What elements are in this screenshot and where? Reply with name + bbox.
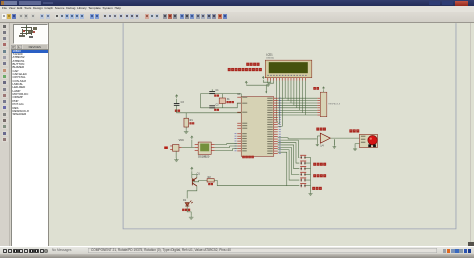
wire xtal left vertical: [199, 93, 201, 107]
opamp input stub: [317, 134, 320, 136]
capacitor C2: [209, 105, 215, 107]
wire R2 to node: [214, 180, 217, 185]
wire LCD E: [277, 80, 282, 126]
LCD display LCD1: [265, 60, 312, 78]
label confirm (red): [312, 186, 315, 189]
svg-text:LM016L: LM016L: [266, 57, 275, 59]
ground LCD: [265, 83, 269, 86]
capacitor C3: [175, 98, 177, 103]
op-amp U2: [320, 133, 330, 143]
svg-text:1/4: 1/4: [320, 144, 324, 147]
transistor Q1: [192, 177, 197, 185]
canvas: [48, 23, 474, 247]
wire xtal bottom rail: [200, 103, 241, 108]
MCU U1 AT89C52 body: [241, 96, 274, 156]
sheet border: [123, 23, 456, 229]
wire LED to ground: [187, 206, 191, 215]
svg-text:C2: C2: [215, 103, 219, 106]
button SW5: [300, 177, 306, 181]
component list: [11, 49, 49, 247]
wire button row 2: [277, 142, 299, 162]
svg-text:VCC: VCC: [178, 138, 183, 141]
wire adjust to DS18B20: [181, 146, 194, 148]
ground opamp: [333, 139, 335, 145]
label RP1: [313, 86, 316, 89]
bottom edge strip: [0, 254, 474, 258]
svg-text:Q1: Q1: [196, 172, 200, 175]
resistor R1: [185, 112, 187, 117]
red indicator: [164, 146, 168, 149]
wire button row 1: [277, 140, 299, 157]
wire xtal top rail: [200, 92, 241, 94]
wire LCD vss to ground: [266, 80, 268, 83]
wire LCD RW: [277, 80, 279, 123]
wires DS18B20 to MCU P1: [214, 142, 237, 145]
button SW3: [300, 166, 306, 170]
toolbar: [0, 12, 474, 23]
label opamp (red): [316, 127, 319, 130]
wire LCD RS: [276, 80, 277, 121]
ground adjust: [174, 157, 179, 161]
svg-text:LCD1: LCD1: [266, 53, 273, 56]
power +5V reset: [175, 94, 177, 97]
resistor R2: [207, 178, 214, 181]
svg-text:R2: R2: [207, 175, 211, 178]
power +5V RP1: [322, 86, 324, 89]
wire LCD vee: [268, 80, 274, 83]
svg-text:X1: X1: [226, 97, 230, 100]
common button wire to ground: [309, 157, 311, 192]
wire RST: [176, 105, 241, 113]
wire opamp out to sounder: [330, 137, 359, 139]
red annotation line 1: [246, 62, 249, 65]
svg-text:C1: C1: [215, 89, 219, 92]
sounder LS1: [359, 134, 377, 147]
base wire to R2: [192, 180, 206, 181]
wire button row 3: [277, 144, 299, 168]
red annotation line 2: [227, 67, 230, 70]
label sounder (red): [349, 129, 352, 132]
capacitor C1: [209, 91, 215, 93]
power +5V EA: [245, 81, 247, 84]
status bar: [0, 246, 474, 255]
MCU right pins: [273, 98, 277, 153]
wire button row 5: [277, 149, 299, 179]
DS18B20 sensor: [198, 142, 211, 154]
button SW6: [300, 183, 306, 187]
power +5V Q1: [190, 167, 192, 170]
ground sounder: [352, 147, 356, 150]
ground LED: [188, 215, 193, 219]
svg-text:R1: R1: [189, 119, 193, 122]
wire EA to VCC: [246, 85, 266, 93]
svg-text:D1: D1: [183, 199, 187, 202]
wire transistor node / button row6: [217, 184, 299, 186]
button SW4: [300, 172, 306, 176]
wires LCD data bus verticals: [285, 80, 305, 114]
button SW1: [300, 155, 306, 159]
button SW2: [300, 160, 306, 164]
svg-text:U1: U1: [237, 92, 241, 96]
power wire DS18B20: [190, 139, 192, 147]
adjust component: [172, 144, 178, 151]
wire RP1 common to +5V: [322, 90, 324, 92]
crystal X1: [221, 93, 223, 97]
wire LCD vdd to +5V: [263, 79, 270, 81]
wire emitter down to LED: [187, 186, 197, 198]
left tool strip: [0, 23, 10, 247]
resistor pack RP1: [320, 92, 327, 117]
ground buttons: [308, 192, 312, 195]
MCU left pins: [237, 97, 241, 151]
label 10uF: [174, 109, 176, 111]
schematic svg: [48, 23, 474, 247]
wire button row 4: [277, 147, 299, 174]
wire adjust to gnd: [175, 151, 177, 158]
wire MCU to opamp: [277, 137, 316, 138]
label AT89C52 (red): [242, 155, 245, 158]
menu bar: [0, 6, 474, 12]
preview window: [13, 24, 48, 45]
label set-lower (red): [313, 174, 316, 177]
object selector panel: [10, 23, 48, 247]
LCD pins: [267, 77, 305, 80]
title bar: [0, 0, 474, 6]
wires P0 bus horizontals: [277, 98, 317, 115]
label set-upper (red): [313, 162, 316, 165]
wire sounder to ground: [355, 143, 359, 147]
svg-text:C3: C3: [180, 101, 184, 104]
P L DEVICES header: [11, 45, 16, 49]
svg-text:DS18B20: DS18B20: [198, 154, 210, 158]
power +5V LCD: [262, 76, 264, 79]
ground R1: [183, 129, 188, 133]
svg-text:RESPACK-8: RESPACK-8: [328, 102, 341, 105]
